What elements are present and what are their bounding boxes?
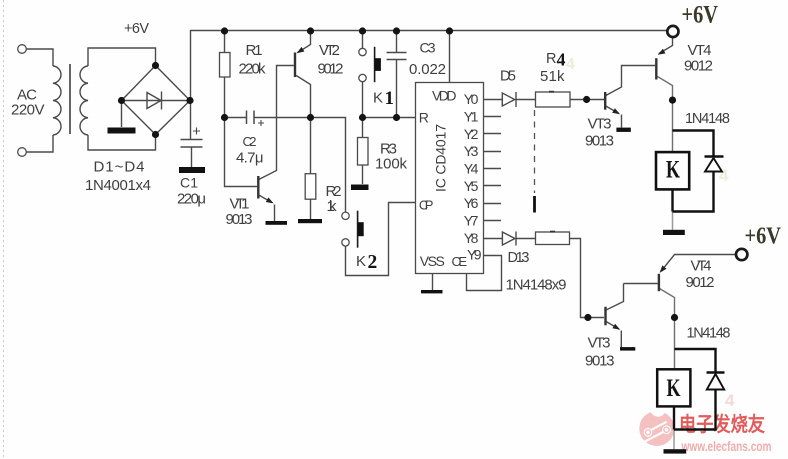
svg-text:D13: D13 [508,250,530,266]
svg-text:R: R [419,110,429,126]
svg-text:K: K [666,157,680,184]
svg-text:Y7: Y7 [464,213,479,229]
svg-text:Y8: Y8 [464,230,479,246]
svg-text:4: 4 [566,56,575,73]
svg-text:9013: 9013 [585,353,615,370]
svg-text:VT2: VT2 [319,42,340,59]
svg-text:4.7μ: 4.7μ [236,150,264,167]
svg-text:9012: 9012 [686,274,715,291]
svg-text:www.elecfans.com: www.elecfans.com [681,438,772,454]
svg-text:Y2: Y2 [464,126,479,142]
svg-text:C2: C2 [243,134,257,149]
svg-text:C3: C3 [420,40,436,56]
svg-text:+6V: +6V [745,223,782,249]
svg-text:9012: 9012 [318,61,344,78]
svg-text:VDD: VDD [432,88,457,104]
svg-text:D1~D4: D1~D4 [94,159,145,176]
svg-text:1N4148x9: 1N4148x9 [506,277,567,294]
svg-text:1N4148: 1N4148 [687,326,731,342]
svg-text:9012: 9012 [684,58,713,75]
svg-text:+6V: +6V [124,21,149,37]
svg-text:R: R [546,51,556,67]
svg-text:K: K [373,90,383,107]
svg-text:220k: 220k [239,61,267,78]
svg-text:VT1: VT1 [230,196,250,213]
svg-text:1N4001x4: 1N4001x4 [85,177,151,194]
svg-text:K: K [667,375,681,402]
svg-text:1N4148: 1N4148 [685,111,730,127]
svg-text:电子发烧友: 电子发烧友 [679,412,765,436]
svg-text:4: 4 [557,50,566,70]
svg-text:CE: CE [452,254,468,269]
svg-text:0.022: 0.022 [409,61,446,78]
svg-text:Y3: Y3 [464,143,479,159]
svg-text:VT3: VT3 [588,335,611,352]
svg-text:C1: C1 [180,175,198,191]
svg-text:51k: 51k [540,68,565,85]
svg-text:Y1: Y1 [464,109,479,125]
svg-text:2: 2 [368,252,378,273]
svg-text:VT4: VT4 [691,258,712,275]
svg-text:100k: 100k [375,156,408,173]
svg-text:1: 1 [385,88,395,109]
svg-text:Y5: Y5 [464,178,479,194]
svg-text:VT3: VT3 [588,116,612,133]
svg-text:4: 4 [725,391,735,410]
svg-text:IC CD4017: IC CD4017 [433,124,449,192]
svg-text:220μ: 220μ [177,191,206,208]
svg-text:K: K [356,253,366,270]
svg-text:Y9: Y9 [467,247,482,263]
svg-text:Y6: Y6 [464,195,479,211]
svg-text:Y0: Y0 [464,91,479,107]
svg-text:9013: 9013 [226,211,253,228]
svg-text:1k: 1k [327,198,338,215]
svg-text:+6V: +6V [682,1,719,28]
svg-text:9013: 9013 [585,133,614,150]
svg-text:Y4: Y4 [464,161,479,177]
svg-text:D5: D5 [500,69,516,85]
svg-text:R1: R1 [246,42,263,59]
svg-text:VT4: VT4 [688,42,712,59]
svg-text:220V: 220V [11,102,45,119]
svg-text:CP: CP [419,198,434,213]
svg-text:VSS: VSS [420,253,445,269]
